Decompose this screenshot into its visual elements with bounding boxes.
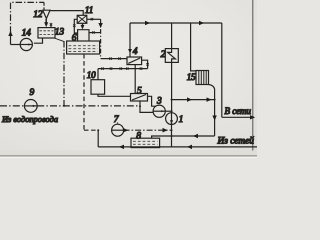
wire: bypass to downcomer [172, 99, 215, 101]
arrow up on riser [10, 32, 12, 38]
svg-text:9: 9 [30, 88, 35, 98]
heat exchanger 13 [38, 28, 55, 38]
svg-text:14: 14 [22, 29, 32, 39]
wire: valve 11 left branch with cock into tank 6 neck [74, 19, 78, 33]
wire: heater 13 bottom to pump 14 [38, 38, 43, 43]
svg-text:11: 11 [85, 6, 93, 16]
svg-text:Из водопровода: Из водопровода [1, 115, 58, 124]
wire: tank 6 drain dashed down to pump 7 line [83, 54, 85, 130]
svg-text:4: 4 [133, 47, 138, 57]
svg-text:1: 1 [179, 115, 184, 125]
svg-text:12: 12 [33, 10, 43, 20]
regulator 10 [91, 80, 105, 95]
wire: pump 1 down to return main [171, 125, 173, 147]
wire: branch into tank 6 neck right with cock [89, 32, 101, 34]
wire: radiator 15 outlet down [209, 85, 215, 136]
regulator 2 [165, 49, 178, 63]
wire: pump 3 to riser [165, 110, 171, 112]
wire: valve 11 right branch with cock [87, 18, 101, 20]
wire: main down to regulator 2 [171, 23, 173, 49]
tank 6 (open feed tank with neck) [67, 30, 100, 54]
water main from city supply [0, 105, 24, 107]
pump 1 [166, 113, 178, 125]
wire: up to heater 4 right port [142, 60, 148, 68]
heat exchanger 4 [127, 57, 142, 65]
svg-text:Из сетей: Из сетей [217, 136, 255, 147]
make-up tank 8 [131, 138, 160, 147]
wire: make-up riser dash-dot from pump 14 up and across to funnel 12 [11, 2, 45, 44]
svg-text:6: 6 [72, 33, 77, 43]
top supply main [130, 22, 222, 24]
arrow right on main [200, 22, 203, 24]
svg-text:3: 3 [156, 96, 162, 106]
wire: heater 5 bottom with water main tee to pump 3 [140, 101, 153, 112]
svg-text:10: 10 [87, 70, 96, 80]
svg-text:15: 15 [187, 72, 196, 82]
svg-text:2: 2 [161, 50, 166, 60]
wire: regulator 2 down to pump 1 [171, 62, 173, 112]
condensate line with cocks from heater 4 to tank [98, 68, 148, 70]
wire: supply out drop [221, 23, 223, 117]
arrow valve 11 down into tank 6 [82, 23, 84, 25]
radiator 15 [191, 23, 209, 85]
supply out arrow В сети [222, 116, 254, 118]
junction dots [63, 99, 216, 137]
paper background [0, 0, 257, 158]
arrow from funnel 12 down into heater 13 [45, 19, 47, 23]
wire: pump 7 discharge dash-dot to pump 1 riser [124, 129, 172, 131]
wire: funnel 12 top to valve 11 [50, 11, 83, 16]
wire: top main down into heater 4 [129, 23, 131, 50]
svg-text:8: 8 [136, 131, 141, 141]
pump 9 on water main [24, 100, 37, 113]
wire: dash-dot from heater 13 down to water main [55, 38, 64, 41]
pump 3 [153, 105, 165, 117]
heat exchanger 5 [131, 94, 148, 102]
wire: regulator 10 stub up [97, 69, 99, 80]
drain stub with cock on heater 13 top [50, 24, 52, 28]
return main Из сетей [98, 146, 257, 148]
wire: heater 5 right port to pump 3 [148, 96, 157, 106]
arrow down on downcomer [214, 115, 216, 120]
steam line with cocks from valve 11 branch to heater 4 [101, 58, 127, 60]
wire: heater 4 bottom to heater 5 [134, 65, 136, 94]
valve 11 (gate box with X) [77, 15, 87, 23]
page rule bottom edge [0, 151, 257, 156]
arrow right on main [146, 22, 149, 24]
page rule right edge [252, 0, 254, 156]
wire: regulator 10 bottom to heater 5 [98, 94, 131, 96]
svg-text:5: 5 [137, 86, 142, 96]
svg-text:В сети: В сети [225, 106, 252, 116]
svg-text:13: 13 [55, 28, 65, 38]
funnel 12 [43, 10, 50, 18]
pump 7 [112, 124, 124, 136]
pump 14 [20, 38, 32, 50]
wire: drop from pump 7 line to return main [97, 130, 99, 147]
wire: tank 8 feed line from downcomer [152, 136, 215, 138]
arrow down on branch [100, 24, 102, 27]
wire: stub into pump 14 [11, 44, 21, 46]
